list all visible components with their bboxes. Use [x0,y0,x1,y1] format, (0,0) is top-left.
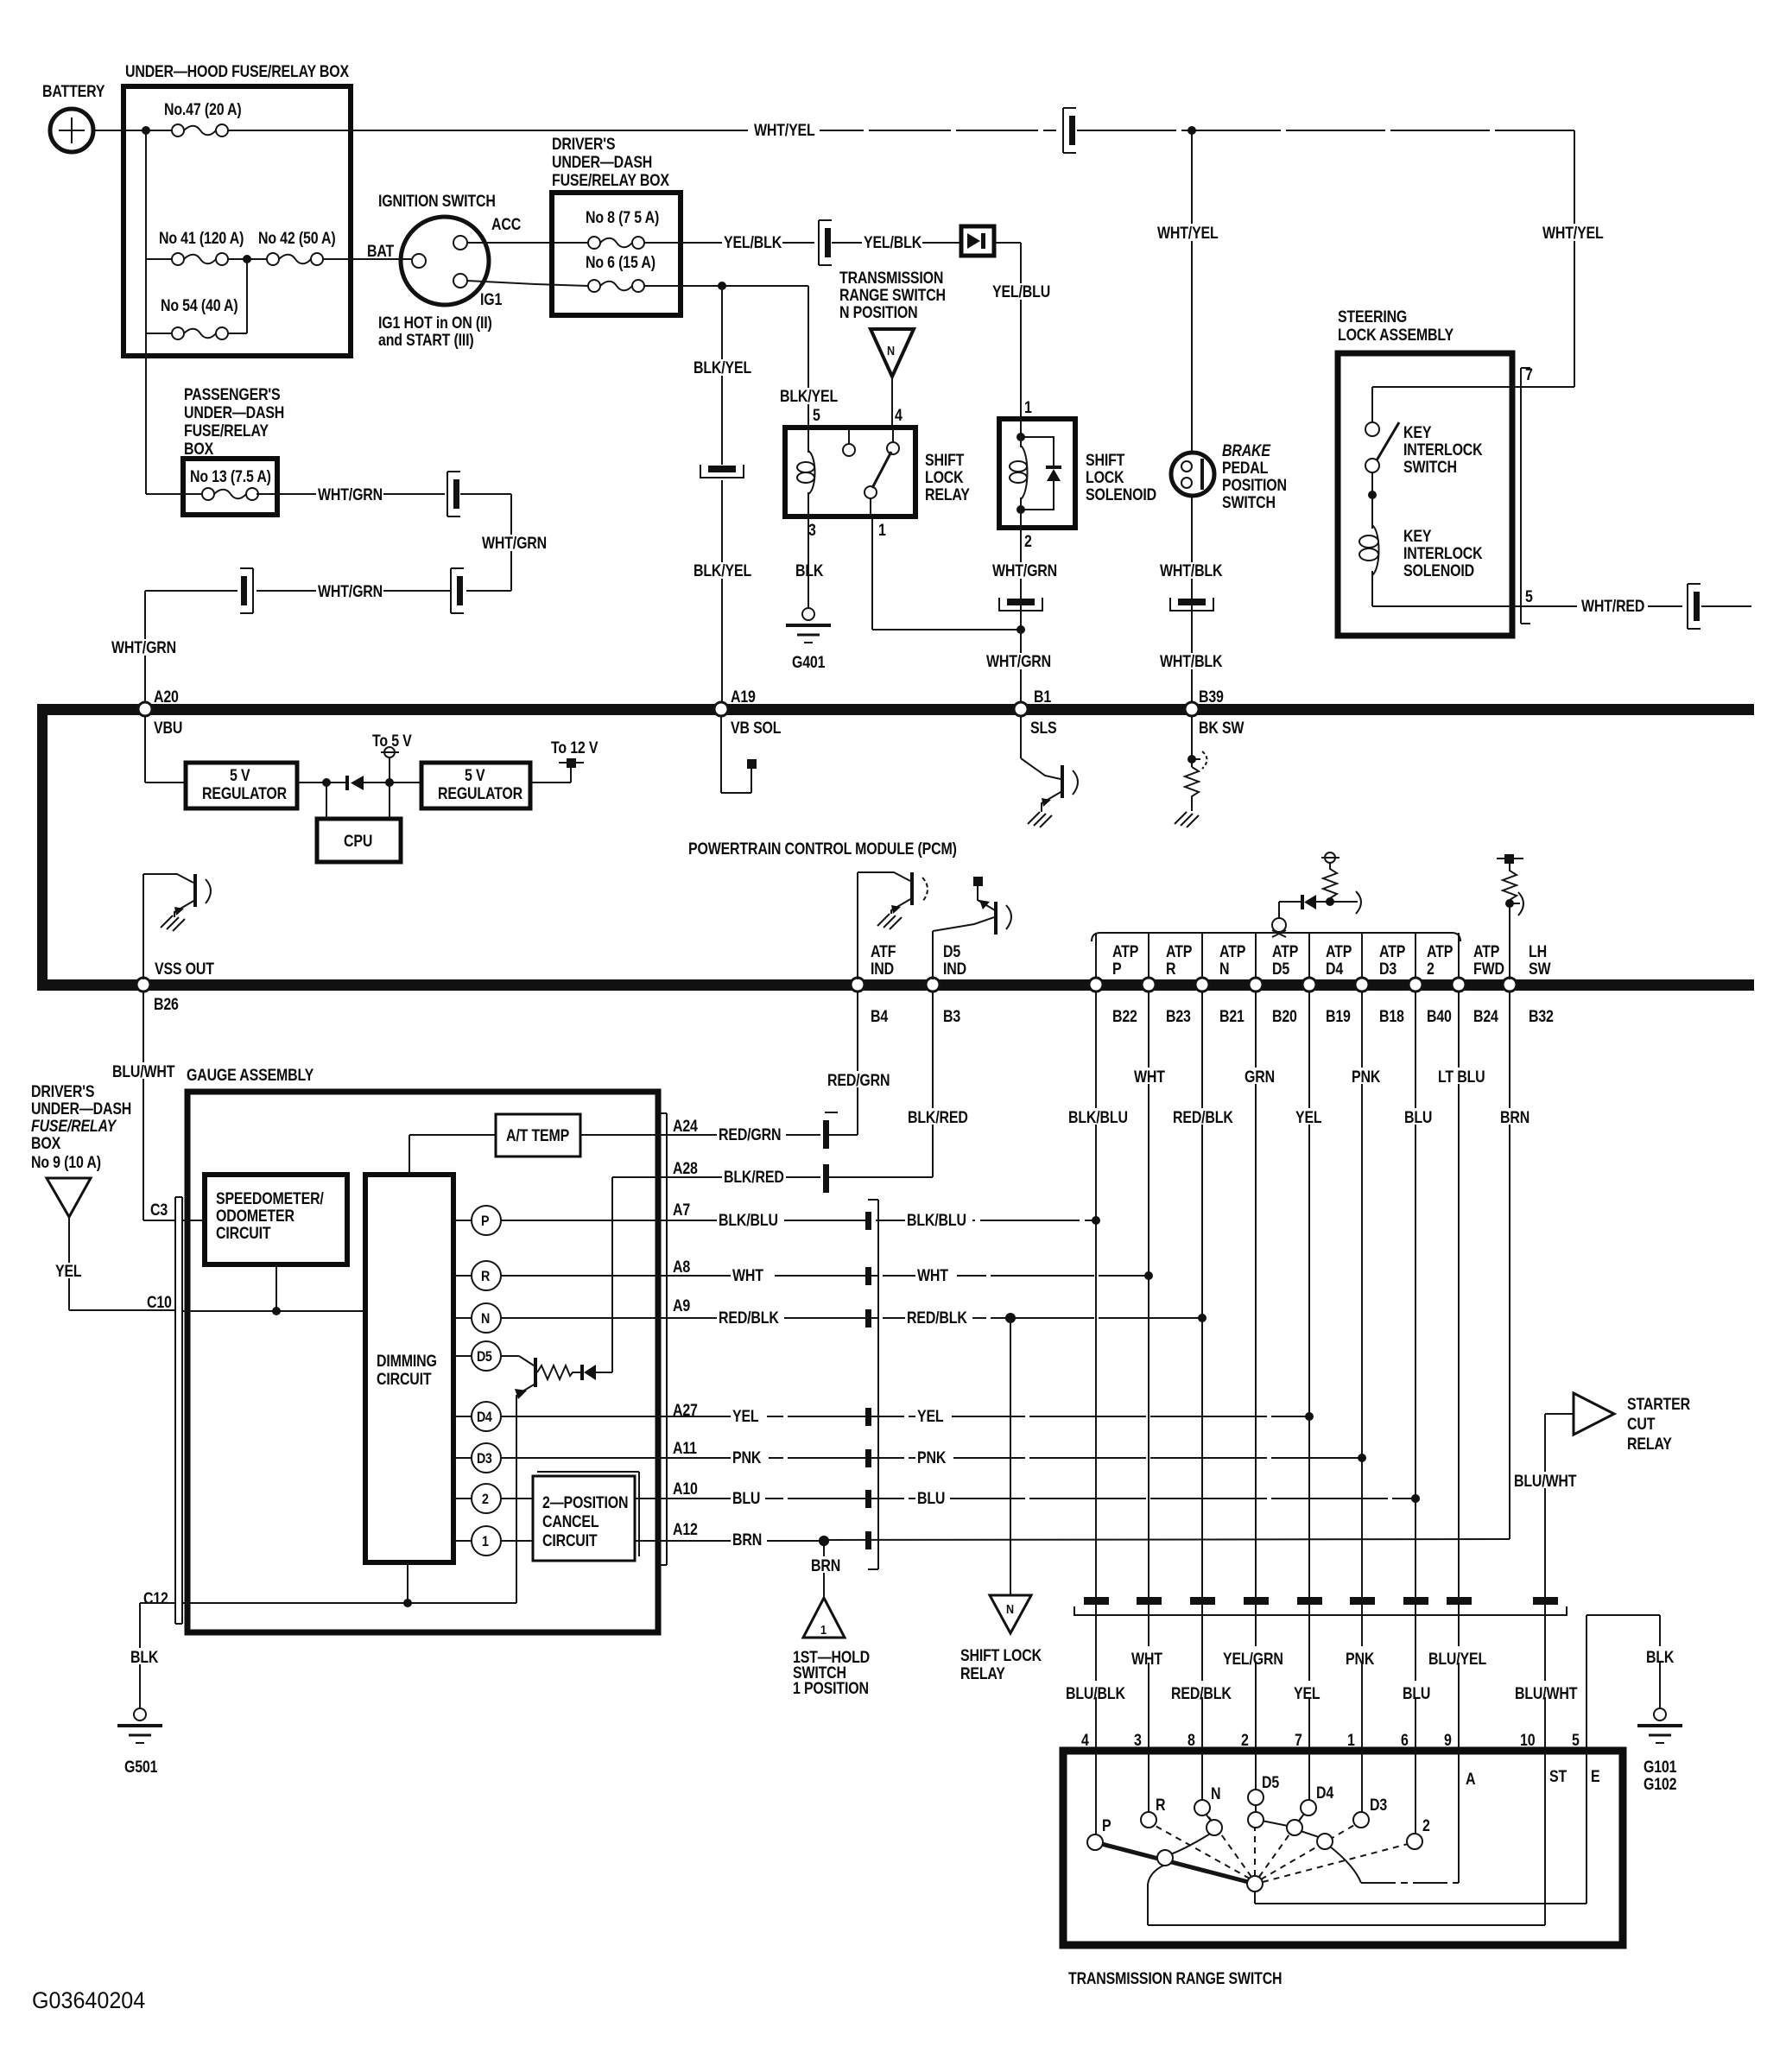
svg-text:B32: B32 [1529,1007,1554,1026]
svg-text:1: 1 [1024,398,1032,417]
svg-text:D5: D5 [1262,1773,1279,1792]
svg-text:D5: D5 [943,942,960,961]
svg-text:B19: B19 [1326,1007,1351,1026]
svg-text:D3: D3 [1370,1796,1387,1815]
svg-text:VB SOL: VB SOL [731,719,782,738]
svg-text:WHT: WHT [1131,1650,1162,1669]
svg-text:C10: C10 [147,1293,172,1312]
svg-text:D3: D3 [1379,960,1396,979]
svg-text:ATF: ATF [871,942,896,961]
svg-text:1: 1 [820,1622,826,1637]
svg-text:B21: B21 [1219,1007,1244,1026]
svg-text:No 8 (7 5 A): No 8 (7 5 A) [586,208,659,227]
svg-text:POWERTRAIN CONTROL MODULE (PCM: POWERTRAIN CONTROL MODULE (PCM) [688,840,957,859]
svg-text:8: 8 [1187,1731,1195,1750]
svg-text:WHT/BLK: WHT/BLK [1160,652,1223,671]
svg-text:B39: B39 [1199,687,1224,707]
svg-text:FUSE/RELAY BOX: FUSE/RELAY BOX [552,171,669,190]
svg-text:BLK/YEL: BLK/YEL [780,387,838,406]
svg-text:No.47 (20 A): No.47 (20 A) [164,100,242,119]
svg-text:ATP: ATP [1272,942,1299,961]
svg-text:VBU: VBU [154,719,182,738]
svg-text:ATP: ATP [1473,942,1500,961]
svg-text:WHT/GRN: WHT/GRN [318,485,383,504]
svg-text:9: 9 [1444,1731,1452,1750]
svg-text:5 V: 5 V [465,766,485,785]
svg-text:2: 2 [1024,532,1032,551]
svg-text:CANCEL: CANCEL [542,1512,599,1531]
svg-text:G102: G102 [1643,1775,1677,1794]
svg-text:RANGE SWITCH: RANGE SWITCH [839,286,946,305]
svg-text:BRN: BRN [1500,1108,1529,1127]
svg-text:KEY: KEY [1403,527,1432,546]
svg-text:BLU/YEL: BLU/YEL [1428,1650,1486,1669]
svg-text:10: 10 [1520,1731,1536,1750]
svg-text:4: 4 [895,406,902,425]
svg-text:R: R [1156,1796,1166,1815]
svg-text:BLU/WHT: BLU/WHT [1514,1472,1577,1491]
svg-text:A19: A19 [731,687,756,707]
svg-text:D4: D4 [477,1410,492,1425]
svg-text:RELAY: RELAY [925,485,970,504]
svg-text:VSS OUT: VSS OUT [155,960,214,979]
svg-text:3: 3 [1134,1731,1142,1750]
svg-text:INTERLOCK: INTERLOCK [1403,544,1483,563]
svg-text:BAT: BAT [367,242,395,261]
svg-text:G501: G501 [124,1758,158,1777]
svg-text:YEL: YEL [732,1407,759,1426]
svg-text:LH: LH [1529,942,1547,961]
svg-text:UNDER—DASH: UNDER—DASH [184,403,284,422]
svg-text:6: 6 [1401,1731,1409,1750]
svg-text:G101: G101 [1643,1758,1677,1777]
svg-text:TRANSMISSION RANGE SWITCH: TRANSMISSION RANGE SWITCH [1068,1969,1282,1988]
svg-text:ATP: ATP [1166,942,1193,961]
svg-text:B40: B40 [1427,1007,1452,1026]
svg-text:4: 4 [1081,1731,1089,1750]
svg-text:WHT/GRN: WHT/GRN [992,561,1057,580]
svg-text:P: P [481,1213,489,1229]
svg-text:UNDER—HOOD FUSE/RELAY BOX: UNDER—HOOD FUSE/RELAY BOX [125,62,349,81]
svg-text:5: 5 [1572,1731,1580,1750]
svg-text:A8: A8 [673,1258,690,1277]
svg-text:R: R [1166,960,1176,979]
svg-text:WHT/BLK: WHT/BLK [1160,561,1223,580]
svg-text:WHT/GRN: WHT/GRN [986,652,1051,671]
svg-text:N: N [1211,1784,1220,1803]
svg-text:TRANSMISSION: TRANSMISSION [839,269,943,288]
svg-text:A: A [1466,1770,1476,1789]
svg-text:BLK/YEL: BLK/YEL [693,358,751,377]
svg-text:CUT: CUT [1627,1415,1656,1434]
svg-text:1: 1 [878,521,886,540]
svg-text:BRN: BRN [811,1556,840,1575]
svg-text:CIRCUIT: CIRCUIT [377,1370,432,1389]
svg-text:BK SW: BK SW [1199,719,1244,738]
svg-text:LT BLU: LT BLU [1438,1068,1485,1087]
svg-text:BLU/WHT: BLU/WHT [1515,1684,1578,1703]
svg-text:A28: A28 [673,1159,698,1178]
svg-text:IND: IND [943,960,966,979]
svg-text:D3: D3 [477,1451,492,1467]
svg-text:5 V: 5 V [230,766,250,785]
svg-text:A10: A10 [673,1480,698,1499]
svg-text:5: 5 [813,406,820,425]
svg-text:WHT/YEL: WHT/YEL [754,121,815,140]
svg-text:R: R [481,1269,490,1284]
svg-text:B1: B1 [1034,687,1051,707]
svg-text:RED/BLK: RED/BLK [719,1308,779,1327]
svg-text:YEL/BLK: YEL/BLK [724,233,782,252]
svg-text:To 5 V: To 5 V [372,732,412,751]
svg-text:No 42 (50 A): No 42 (50 A) [258,229,336,248]
svg-text:P: P [1102,1816,1111,1835]
svg-text:No 13 (7.5 A): No 13 (7.5 A) [190,467,271,486]
svg-text:RED/GRN: RED/GRN [827,1071,890,1090]
svg-text:WHT/RED: WHT/RED [1581,597,1644,616]
svg-text:ATP: ATP [1427,942,1453,961]
svg-text:PNK: PNK [1352,1068,1381,1087]
svg-text:A9: A9 [673,1296,690,1315]
svg-text:N: N [887,343,895,358]
svg-text:2—POSITION: 2—POSITION [542,1493,628,1512]
svg-text:YEL/BLK: YEL/BLK [864,233,922,252]
svg-text:WHT/GRN: WHT/GRN [482,534,547,553]
svg-text:DIMMING: DIMMING [377,1352,437,1371]
svg-text:N POSITION: N POSITION [839,303,917,322]
svg-text:UNDER—DASH: UNDER—DASH [31,1099,131,1118]
svg-text:LOCK: LOCK [1086,468,1124,487]
svg-text:and START (III): and START (III) [378,331,474,350]
svg-text:DRIVER'S: DRIVER'S [552,135,616,154]
svg-text:RED/GRN: RED/GRN [719,1125,781,1144]
svg-text:BRAKE: BRAKE [1222,441,1271,460]
svg-text:BLU: BLU [1404,1108,1432,1127]
svg-text:WHT/YEL: WHT/YEL [1542,224,1604,243]
svg-text:BOX: BOX [31,1134,60,1153]
svg-text:SOLENOID: SOLENOID [1403,561,1474,580]
svg-text:ODOMETER: ODOMETER [216,1207,294,1226]
svg-text:LOCK ASSEMBLY: LOCK ASSEMBLY [1338,326,1453,345]
svg-text:ATP: ATP [1326,942,1352,961]
svg-text:RED/BLK: RED/BLK [1171,1684,1232,1703]
svg-text:PNK: PNK [917,1448,947,1467]
svg-text:WHT: WHT [917,1266,948,1285]
svg-text:ATP: ATP [1219,942,1246,961]
svg-text:WHT/YEL: WHT/YEL [1157,224,1219,243]
svg-text:A12: A12 [673,1520,698,1539]
svg-text:IGNITION SWITCH: IGNITION SWITCH [378,192,496,211]
svg-text:YEL: YEL [1295,1108,1322,1127]
svg-text:BLU/BLK: BLU/BLK [1066,1684,1125,1703]
svg-text:CIRCUIT: CIRCUIT [216,1224,271,1243]
svg-text:WHT/GRN: WHT/GRN [318,582,383,601]
svg-text:KEY: KEY [1403,423,1432,442]
svg-text:LOCK: LOCK [925,468,964,487]
svg-text:SHIFT: SHIFT [925,451,965,470]
svg-text:BRN: BRN [732,1530,762,1549]
svg-text:ACC: ACC [491,215,522,234]
svg-text:BLK: BLK [795,561,824,580]
svg-text:A11: A11 [673,1439,697,1458]
svg-text:YEL: YEL [917,1407,944,1426]
svg-text:IG1 HOT in ON (II): IG1 HOT in ON (II) [378,314,492,333]
svg-text:2: 2 [482,1492,489,1507]
svg-text:SLS: SLS [1030,719,1057,738]
svg-text:BOX: BOX [184,440,213,459]
svg-text:No 6 (15 A): No 6 (15 A) [586,253,655,272]
svg-text:WHT: WHT [1134,1068,1165,1087]
svg-text:SHIFT: SHIFT [1086,451,1125,470]
svg-text:ST: ST [1549,1767,1567,1786]
svg-text:BLK: BLK [1646,1648,1675,1667]
svg-text:BLK/RED: BLK/RED [724,1168,784,1187]
svg-text:C3: C3 [150,1201,168,1220]
svg-text:B23: B23 [1166,1007,1191,1026]
svg-text:7: 7 [1525,365,1533,384]
svg-text:GRN: GRN [1244,1068,1275,1087]
svg-text:B22: B22 [1112,1007,1137,1026]
svg-text:STEERING: STEERING [1338,307,1407,326]
svg-text:1 POSITION: 1 POSITION [793,1679,869,1698]
svg-text:BATTERY: BATTERY [42,82,105,101]
svg-text:YEL/BLU: YEL/BLU [992,282,1050,301]
svg-text:B24: B24 [1473,1007,1498,1026]
svg-text:SWITCH: SWITCH [1403,458,1457,477]
svg-text:BLU: BLU [917,1489,945,1508]
svg-text:D4: D4 [1316,1784,1333,1803]
svg-text:INTERLOCK: INTERLOCK [1403,440,1483,459]
svg-text:YEL: YEL [1294,1684,1320,1703]
svg-text:FUSE/RELAY: FUSE/RELAY [31,1117,117,1136]
svg-text:SWITCH: SWITCH [1222,493,1276,512]
svg-text:PNK: PNK [732,1448,762,1467]
svg-text:A7: A7 [673,1201,690,1220]
svg-text:BLK/YEL: BLK/YEL [693,561,751,580]
svg-text:BLU/WHT: BLU/WHT [112,1062,175,1081]
svg-text:2: 2 [1427,960,1434,979]
svg-text:B3: B3 [943,1007,960,1026]
svg-text:FWD: FWD [1473,960,1504,979]
svg-text:7: 7 [1295,1731,1302,1750]
svg-text:No 41 (120 A): No 41 (120 A) [159,229,244,248]
svg-text:CPU: CPU [344,832,372,851]
svg-text:STARTER: STARTER [1627,1395,1690,1414]
svg-text:1: 1 [482,1534,489,1549]
svg-text:D5: D5 [1272,960,1289,979]
svg-text:B4: B4 [871,1007,888,1026]
svg-text:WHT/GRN: WHT/GRN [111,638,176,657]
svg-text:A24: A24 [673,1117,698,1136]
svg-text:BLK/BLU: BLK/BLU [1068,1108,1128,1127]
svg-text:RELAY: RELAY [960,1664,1005,1683]
svg-text:B26: B26 [154,995,179,1014]
svg-text:N: N [1006,1601,1014,1616]
svg-text:2: 2 [1422,1816,1430,1835]
svg-text:DRIVER'S: DRIVER'S [31,1082,95,1101]
svg-text:SHIFT LOCK: SHIFT LOCK [960,1646,1042,1665]
svg-text:E: E [1591,1767,1600,1786]
svg-text:REGULATOR: REGULATOR [438,784,522,803]
svg-text:IND: IND [871,960,894,979]
svg-text:CIRCUIT: CIRCUIT [542,1531,598,1550]
svg-text:B20: B20 [1272,1007,1297,1026]
svg-text:PNK: PNK [1346,1650,1375,1669]
svg-text:N: N [481,1311,490,1327]
svg-text:No 9 (10 A): No 9 (10 A) [31,1153,101,1172]
svg-text:ATP: ATP [1112,942,1139,961]
svg-text:C12: C12 [143,1589,168,1608]
svg-text:A20: A20 [154,687,179,707]
svg-text:YEL/GRN: YEL/GRN [1223,1650,1283,1669]
svg-text:ATP: ATP [1379,942,1406,961]
svg-text:WHT: WHT [732,1266,763,1285]
svg-text:P: P [1112,960,1122,979]
svg-text:REGULATOR: REGULATOR [202,784,287,803]
svg-text:RED/BLK: RED/BLK [1173,1108,1233,1127]
svg-text:To 12 V: To 12 V [551,738,598,757]
svg-text:POSITION: POSITION [1222,476,1287,495]
svg-text:SW: SW [1529,960,1551,979]
svg-text:No 54 (40 A): No 54 (40 A) [161,296,238,315]
svg-text:D4: D4 [1326,960,1343,979]
svg-text:BLK/BLU: BLK/BLU [907,1211,966,1230]
svg-text:1: 1 [1347,1731,1355,1750]
svg-text:UNDER—DASH: UNDER—DASH [552,153,652,172]
svg-text:IG1: IG1 [480,290,503,309]
svg-text:BLK/RED: BLK/RED [908,1108,968,1127]
svg-text:B18: B18 [1379,1007,1404,1026]
svg-text:PASSENGER'S: PASSENGER'S [184,385,281,404]
svg-text:SPEEDOMETER/: SPEEDOMETER/ [216,1189,324,1208]
svg-text:RELAY: RELAY [1627,1435,1672,1454]
svg-text:BLK: BLK [130,1648,159,1667]
svg-text:GAUGE ASSEMBLY: GAUGE ASSEMBLY [187,1066,314,1085]
svg-text:5: 5 [1525,587,1533,606]
svg-text:G401: G401 [792,653,826,672]
svg-text:3: 3 [808,521,816,540]
svg-text:YEL: YEL [55,1262,82,1281]
svg-text:BLK/BLU: BLK/BLU [719,1211,778,1230]
svg-text:FUSE/RELAY: FUSE/RELAY [184,421,269,440]
svg-text:G03640204: G03640204 [32,1986,145,2013]
svg-text:D5: D5 [477,1349,492,1365]
svg-text:SOLENOID: SOLENOID [1086,485,1156,504]
svg-text:BLU: BLU [732,1489,760,1508]
svg-text:2: 2 [1241,1731,1249,1750]
svg-text:A/T TEMP: A/T TEMP [506,1126,570,1145]
svg-text:PEDAL: PEDAL [1222,459,1269,478]
svg-text:BLU: BLU [1403,1684,1430,1703]
svg-text:RED/BLK: RED/BLK [907,1308,967,1327]
svg-text:N: N [1219,960,1229,979]
